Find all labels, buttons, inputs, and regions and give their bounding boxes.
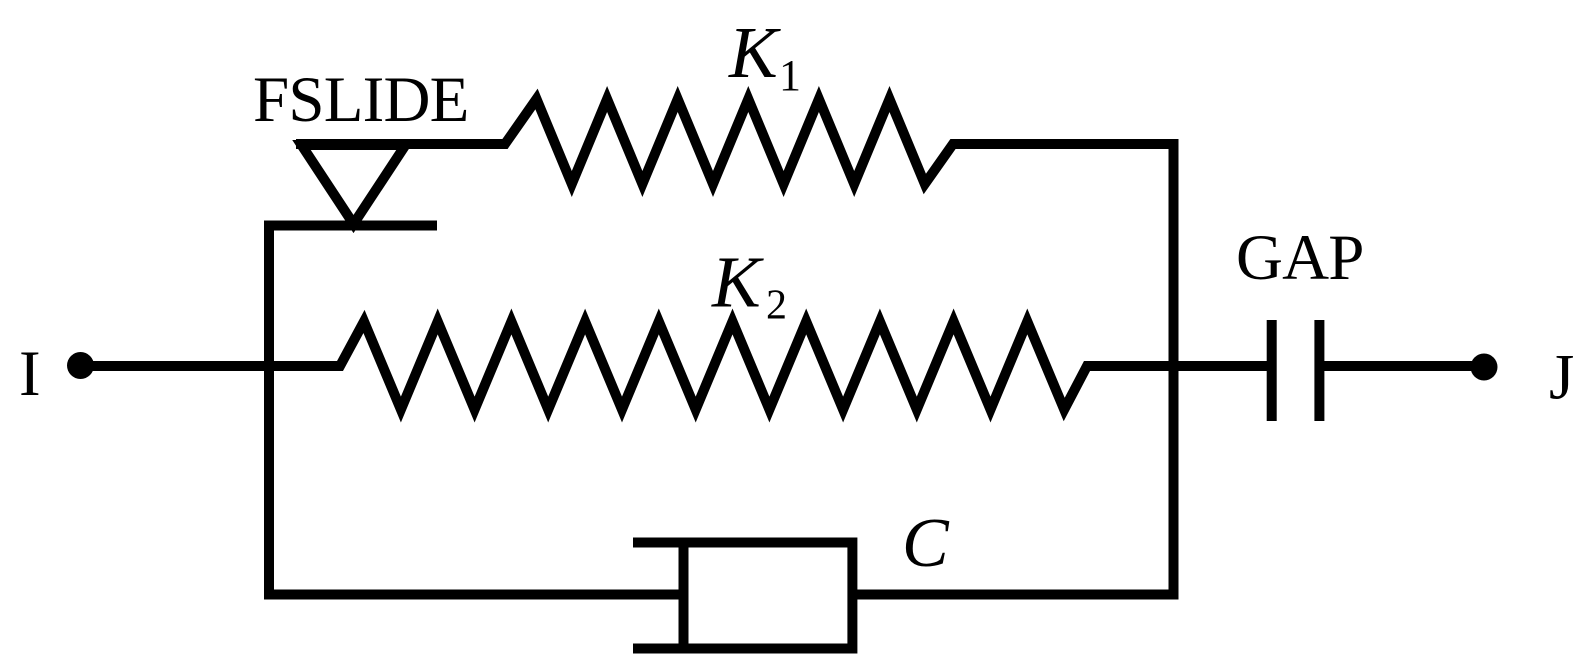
svg-text:2: 2	[766, 283, 787, 329]
svg-text:I: I	[19, 338, 41, 410]
svg-text:FSLIDE: FSLIDE	[253, 64, 469, 136]
svg-text:C: C	[902, 505, 950, 582]
svg-text:GAP: GAP	[1236, 222, 1364, 294]
svg-text:J: J	[1549, 342, 1574, 414]
svg-text:K: K	[728, 12, 781, 93]
svg-text:K: K	[711, 242, 764, 323]
svg-text:1: 1	[779, 51, 801, 100]
